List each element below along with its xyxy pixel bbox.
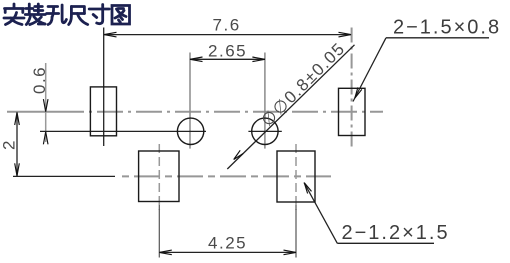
svg-text:2−1.5×0.8: 2−1.5×0.8	[393, 17, 501, 39]
svg-text:4.25: 4.25	[208, 234, 247, 253]
svg-text:7.6: 7.6	[213, 16, 241, 35]
svg-text:∅∅0.8±0.05: ∅∅0.8±0.05	[257, 39, 349, 131]
svg-text:0.6: 0.6	[30, 66, 49, 94]
svg-text:2.65: 2.65	[208, 42, 247, 61]
svg-text:2−1.2×1.5: 2−1.2×1.5	[342, 222, 450, 244]
svg-text:2: 2	[0, 139, 19, 150]
